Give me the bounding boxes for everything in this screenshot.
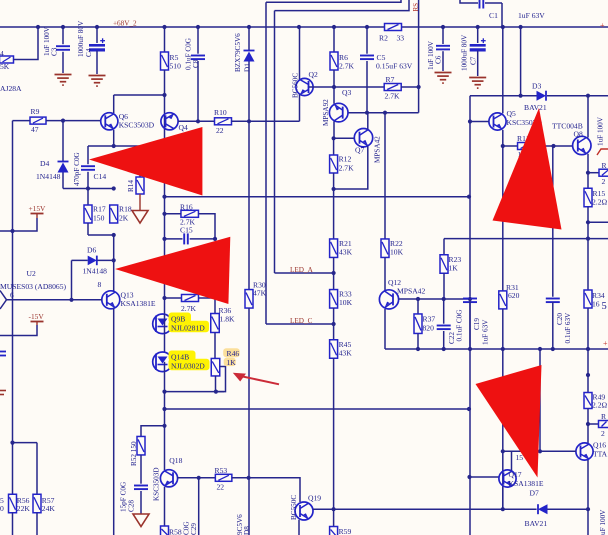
wire vertical bus x=274.5 — [274, 11, 276, 273]
svg-text:C5: C5 — [377, 53, 386, 62]
svg-text:C6: C6 — [435, 55, 443, 64]
wire Q17 collector up — [511, 451, 513, 470]
wire R21 bottom — [333, 258, 335, 291]
resistor R12 2.7K — [333, 138, 335, 155]
wire Q8 collector — [587, 96, 589, 138]
ground C7 — [469, 77, 486, 79]
wire Q3 base row y=112.7 — [348, 112, 419, 114]
resistor R13 (clipped) — [599, 169, 608, 176]
svg-text:5K: 5K — [0, 62, 10, 71]
wire x=470 lower vertical — [469, 297, 471, 535]
wire R9 left — [13, 120, 31, 122]
svg-text:15pF C0G: 15pF C0G — [120, 482, 128, 512]
svg-text:C28: C28 — [128, 500, 136, 512]
svg-text:Q16: Q16 — [593, 441, 606, 450]
svg-text:C4: C4 — [85, 48, 93, 57]
resistor R58 — [161, 526, 169, 535]
wire R45 bottom long — [333, 358, 335, 509]
wire x=249 bottom — [248, 478, 250, 535]
svg-text:U2: U2 — [27, 269, 36, 278]
resistor R17 150 — [87, 189, 89, 206]
wire D3 feed from rail — [520, 27, 522, 96]
capacitor C4 1000uF 80V electrolytic — [96, 27, 98, 43]
svg-text:R46: R46 — [227, 349, 240, 358]
wire Q18 emitter down — [164, 487, 166, 527]
svg-text:R14: R14 — [127, 180, 135, 192]
wire x=113.7 D6 to Q13 — [113, 235, 115, 291]
svg-text:R10: R10 — [214, 108, 227, 117]
ground C6 — [435, 72, 452, 74]
svg-text:C14: C14 — [94, 172, 107, 181]
red mark right edge — [597, 149, 608, 155]
wire LED_A row — [275, 272, 334, 274]
capacitor C14 470pF — [87, 146, 89, 164]
capacitor C3 1uF 100V — [62, 27, 64, 44]
junction bottom row R46 — [214, 390, 218, 394]
capacitor C22 0.1uF C0G — [443, 299, 445, 324]
wire R10 right — [232, 120, 300, 122]
junction base row mid — [538, 449, 542, 453]
resistor R36 1.8K — [211, 314, 220, 333]
junction opamp output — [69, 298, 73, 302]
wire Q6 collector row y=95 — [114, 94, 165, 96]
wire Q6 emitter down x=113.7 — [113, 130, 115, 146]
svg-text:D8: D8 — [243, 526, 251, 535]
junction R34 top — [586, 237, 590, 241]
transistor Q16 TTA — [576, 443, 593, 460]
svg-text:Q5: Q5 — [507, 109, 516, 118]
resistor R53 22 — [215, 474, 232, 481]
svg-text:22: 22 — [217, 483, 225, 492]
highlight NJL0281D — [169, 321, 210, 333]
wire R16 left — [165, 213, 182, 215]
junction rail349 C19 — [468, 347, 472, 351]
wire +15V to node — [0, 218, 37, 231]
junction R6/R7/Q3 node — [332, 85, 336, 89]
highlight NJL0302D — [169, 359, 210, 371]
transistor Q7 MPSA42 — [354, 129, 372, 147]
resistor R52 150 — [137, 436, 145, 455]
junction on +68V rail — [61, 25, 65, 29]
svg-text:510: 510 — [170, 62, 182, 71]
svg-text:C29: C29 — [190, 523, 198, 535]
resistor R37 820 — [417, 299, 419, 314]
svg-text:R9: R9 — [31, 107, 40, 116]
resistor R16 2.7K — [181, 210, 199, 217]
transistor Q2 BC560C — [299, 27, 301, 80]
junction on +68V rail — [332, 25, 336, 29]
junction rail349 C20 — [551, 347, 555, 351]
transistor Q14B NJL0302D (with diode) — [153, 352, 173, 372]
ground (open triangle) C28 — [133, 514, 149, 527]
junction x588 y375 — [586, 373, 590, 377]
svg-text:4: 4 — [0, 49, 4, 58]
junction rail409 left — [162, 407, 166, 411]
resistor R45 43K — [330, 340, 338, 359]
svg-text:2.7K: 2.7K — [385, 92, 400, 101]
wire x=502.8 mid vertical — [502, 349, 504, 509]
svg-text:24K: 24K — [42, 504, 56, 513]
wire R30 bottom — [248, 308, 250, 478]
junction mid rail right — [467, 195, 471, 199]
wire C14 top row y=146 — [88, 145, 140, 147]
capacitor C5 0.15uF 63V — [366, 27, 368, 54]
wire C1 right down to rail — [501, 3, 503, 27]
svg-text:C20: C20 — [556, 313, 564, 325]
junction LED_A node — [332, 271, 336, 275]
junction x114 y146 — [112, 144, 116, 148]
junction R15 out — [586, 220, 590, 224]
svg-text:MPSA92: MPSA92 — [322, 99, 330, 126]
resistor R57 24K — [33, 494, 41, 513]
junction R5/Q4 base node — [162, 93, 166, 97]
svg-text:2.7K: 2.7K — [181, 304, 196, 313]
wire R7 row y=87 — [334, 86, 384, 88]
junction C22 top — [442, 297, 446, 301]
transistor Q18 KSC3503D — [160, 470, 177, 487]
svg-text:1uF 100V: 1uF 100V — [427, 40, 435, 70]
svg-text:47: 47 — [31, 125, 39, 134]
svg-text:BC550C: BC550C — [290, 495, 298, 520]
junction on +68V rail — [441, 25, 445, 29]
wire R5 bottom — [164, 70, 166, 95]
junction rail349 R31 — [501, 347, 505, 351]
wire top net B horizontal — [275, 0, 410, 11]
wire +68V top rail — [0, 26, 385, 28]
svg-text:1uF 63V: 1uF 63V — [518, 11, 545, 20]
svg-text:Q3: Q3 — [342, 88, 351, 97]
wire x=164.5 down — [164, 197, 166, 314]
wire R59 top — [333, 509, 335, 526]
junction D3 wire — [519, 94, 523, 98]
junction R37 top — [416, 297, 420, 301]
resistor R2 33 — [385, 24, 402, 31]
resistor R23 1K — [440, 255, 448, 274]
svg-text:R2: R2 — [379, 34, 388, 43]
junction C5 node — [365, 111, 369, 115]
junction C20 column — [551, 144, 555, 148]
svg-text:1.8K: 1.8K — [220, 315, 235, 324]
svg-text:R7: R7 — [386, 75, 395, 84]
wire R9 right to Q6 base — [46, 120, 101, 122]
svg-text:22K: 22K — [17, 504, 31, 513]
wire D7 row y=509.2 — [313, 508, 537, 510]
junction on +68V rail — [501, 25, 505, 29]
wire R50 stub — [588, 423, 599, 425]
transistor Q19 BC550C — [295, 502, 313, 520]
svg-text:R12: R12 — [339, 155, 352, 164]
junction R13 node — [586, 171, 590, 175]
wire R33 bottom — [333, 308, 335, 341]
wire Q16 emitter — [587, 460, 589, 535]
ground (open triangle) R14 — [132, 211, 148, 224]
wire D3 row y=95.7 — [470, 95, 537, 97]
wire Q7 collector up to C5 node — [367, 113, 369, 130]
svg-text:D6: D6 — [87, 246, 96, 255]
junction R56/R57 split — [10, 441, 14, 445]
resistor R22 10K — [381, 239, 389, 258]
svg-text:NJL0302D: NJL0302D — [171, 361, 205, 370]
junction LED_C node — [332, 322, 336, 326]
wire Q5 emitter down — [502, 130, 504, 146]
wire Q12 emitter to rail349 — [384, 309, 386, 349]
resistor R10 22 — [215, 118, 232, 125]
wire Q13 emitter long — [113, 309, 115, 535]
wire x=37 down — [36, 443, 38, 495]
wire Q4 emitter row y=121.3 — [178, 120, 215, 122]
transistor Q5 KSC3503D — [489, 113, 506, 130]
svg-text:BAV21: BAV21 — [524, 103, 547, 112]
diode D7 BAV21 — [538, 504, 548, 514]
svg-text:0: 0 — [0, 504, 4, 513]
capacitor C6 1uF 100V — [442, 27, 444, 44]
svg-text:10K: 10K — [390, 248, 404, 257]
svg-text:1000uF 80V: 1000uF 80V — [461, 34, 469, 71]
svg-text:C7: C7 — [470, 56, 478, 65]
svg-text:R17: R17 — [93, 205, 106, 214]
svg-text:MPSA42: MPSA42 — [374, 136, 382, 163]
svg-text:0.1uF 63V: 0.1uF 63V — [564, 312, 572, 344]
wire R14 to ground — [139, 194, 141, 210]
highlight Q14B — [169, 351, 196, 362]
junction mid rail left — [162, 195, 166, 199]
annotation arrow to R46 — [238, 376, 279, 385]
opamp U2 output tip — [0, 291, 7, 310]
annotation red triangle 4 — [476, 365, 542, 478]
capacitor C28 15pF C0G — [134, 485, 148, 487]
capacitor clipped at left edge y=352 — [0, 351, 6, 353]
capacitor C1 1uF 63V — [460, 0, 478, 3]
transistor Q17 KSA1381E — [470, 476, 500, 478]
svg-text:1uF 100V: 1uF 100V — [597, 116, 605, 146]
svg-text:Q17: Q17 — [509, 470, 522, 479]
svg-text:D3: D3 — [532, 82, 541, 91]
junction rail349 C22 — [442, 347, 446, 351]
wire R46 bottom — [215, 376, 217, 392]
svg-text:0.1uF C0G: 0.1uF C0G — [456, 310, 464, 342]
svg-text:Q8: Q8 — [574, 130, 583, 139]
svg-text:D7: D7 — [530, 489, 539, 498]
junction R50 node — [586, 422, 590, 426]
wire R22 column — [384, 113, 386, 239]
svg-text:D4: D4 — [40, 159, 49, 168]
highlight Q9B — [169, 313, 192, 324]
svg-text:8: 8 — [98, 280, 102, 289]
svg-text:1N4148: 1N4148 — [36, 172, 61, 181]
wire rail y=238.6 — [444, 238, 608, 240]
svg-text:16: 16 — [592, 300, 600, 309]
svg-text:+68V_2: +68V_2 — [113, 20, 137, 28]
wire x=333.6 down to R21 — [333, 189, 335, 239]
junction base row left — [501, 449, 505, 453]
junction Q19 collector node — [332, 507, 336, 511]
transistor Q3 MPSA92 — [333, 87, 335, 104]
svg-text:2.2Ω: 2.2Ω — [592, 198, 607, 207]
resistor R15 2.2R — [584, 188, 592, 207]
wire Q19 collector — [313, 508, 334, 510]
svg-text:1N4148: 1N4148 — [83, 267, 108, 276]
highlight 1K — [224, 358, 236, 367]
junction on +68V rail — [95, 25, 99, 29]
junction rail349 Q16 feed — [538, 347, 542, 351]
junction on +68V rail — [365, 25, 369, 29]
resistor R31 620 — [502, 146, 504, 291]
svg-text:D1: D1 — [244, 63, 252, 72]
junction Q7 base node — [332, 136, 336, 140]
junction D7 right — [586, 507, 590, 511]
junction D6 cathode — [112, 258, 116, 262]
wire Q6 collector up — [113, 95, 115, 113]
wire R13 stub — [588, 172, 600, 174]
resistor R21 43K — [330, 239, 338, 258]
junction bottom row left — [162, 390, 166, 394]
svg-text:-15V: -15V — [29, 312, 45, 321]
svg-text:2.7K: 2.7K — [339, 164, 354, 173]
junction R12 bottom node — [332, 187, 336, 191]
svg-text:Q19: Q19 — [308, 494, 321, 503]
wire -15V to opamp — [0, 325, 37, 336]
junction Q5 base — [468, 119, 472, 123]
R46 tap line — [216, 367, 226, 392]
resistor R34 16 — [587, 239, 589, 290]
resistor R18 2K — [110, 205, 118, 223]
svg-text:+15V: +15V — [29, 204, 47, 213]
wire R23 drop — [443, 239, 445, 255]
junction on +68V rail — [36, 25, 40, 29]
wire R52 top — [141, 426, 165, 437]
svg-text:470pF C0G: 470pF C0G — [73, 152, 81, 186]
resistor R30 47K — [248, 289, 250, 291]
svg-text:2: 2 — [601, 429, 605, 438]
svg-text:5: 5 — [602, 301, 607, 312]
junction on +68V rail — [162, 25, 166, 29]
svg-text:6: 6 — [10, 291, 14, 300]
svg-text:10K: 10K — [339, 298, 353, 307]
svg-text:1K: 1K — [449, 264, 459, 273]
wire R52 to C28 — [140, 455, 142, 484]
resistor R6 2.7K — [333, 27, 335, 52]
annotation red triangle 2 — [115, 237, 230, 304]
svg-text:C15: C15 — [180, 226, 193, 235]
svg-text:+: + — [600, 21, 605, 30]
transistor Q8 TTC004B — [573, 136, 591, 154]
svg-text:MPSA42: MPSA42 — [397, 287, 425, 296]
svg-text:BAV21: BAV21 — [525, 519, 548, 528]
wire R56/R57 row — [13, 442, 38, 444]
wire Q19 emitter — [298, 520, 300, 535]
svg-text:43K: 43K — [339, 349, 353, 358]
svg-text:LED_A: LED_A — [290, 266, 314, 274]
junction Q8 collector node — [586, 94, 590, 98]
wire Q14B emitter bottom row — [165, 391, 225, 393]
svg-text:150: 150 — [93, 214, 105, 223]
svg-text:620: 620 — [508, 291, 520, 300]
svg-text:KSC3503D: KSC3503D — [153, 467, 161, 501]
resistor R14 — [139, 146, 141, 177]
wire mid rail y=196.7 — [165, 196, 470, 198]
capacitor C8 0.1uF C0G — [197, 27, 199, 54]
junction on +68V rail — [476, 25, 480, 29]
wire R7 right — [401, 86, 419, 88]
wire Q5 collector up — [502, 27, 504, 113]
wire R35 right corner down — [199, 298, 216, 314]
wire R53 right to Q19 — [232, 478, 300, 502]
svg-text:uF 100V: uF 100V — [599, 509, 607, 535]
svg-text:47K: 47K — [253, 289, 267, 298]
junction on +68V rail — [519, 25, 523, 29]
junction rail349 R34 — [586, 347, 590, 351]
transistor Q12 MPSA42 — [384, 290, 386, 292]
wire R11 right to Q8 — [532, 145, 573, 147]
svg-text:Q18: Q18 — [169, 456, 182, 465]
svg-text:C3: C3 — [51, 47, 59, 56]
wire R22 bottom to Q12 — [384, 258, 386, 291]
junction R22 node — [383, 111, 387, 115]
svg-text:KSA1381E: KSA1381E — [509, 479, 544, 488]
ground C4 — [89, 75, 106, 77]
svg-text:33: 33 — [397, 34, 405, 43]
svg-text:C19: C19 — [473, 318, 481, 330]
resistor R35 2.7K — [165, 297, 182, 299]
svg-text:BC560C: BC560C — [292, 73, 300, 98]
junction D1 bottom — [247, 119, 251, 123]
diode D6 1N4148 — [72, 259, 88, 261]
svg-text:R59: R59 — [339, 527, 352, 535]
wire C29 column — [198, 478, 200, 535]
wire Q16 base row y=451.3 — [503, 450, 576, 452]
svg-text:15: 15 — [516, 453, 524, 462]
junction C29 tap — [197, 476, 201, 480]
resistor R11 — [503, 145, 518, 147]
junction on +68V rail — [247, 25, 251, 29]
transistor Q9B NJL0281D (with diode) — [153, 314, 173, 334]
ground C3 — [55, 74, 72, 76]
svg-text:Q7: Q7 — [355, 146, 364, 155]
junction R52 tap — [162, 424, 166, 428]
wire R17/R18 bottom join — [88, 234, 114, 236]
resistor R33 10K — [330, 290, 338, 309]
resistor R49 2.2R — [584, 393, 592, 409]
wire R36 to R46 — [214, 333, 216, 359]
resistor R56 22K — [9, 494, 17, 513]
junction R18 bottom — [112, 233, 116, 237]
svg-text:AJ28A: AJ28A — [0, 84, 22, 93]
junction R35 left — [162, 296, 166, 300]
resistor R9 — [30, 117, 46, 124]
zener diode D1 BZX79C5V6 — [248, 27, 250, 50]
highlight R46 — [223, 348, 240, 357]
junction C15 right — [213, 237, 217, 241]
svg-text:2K: 2K — [119, 214, 129, 223]
svg-text:22: 22 — [216, 126, 224, 135]
wire between output transistors — [164, 334, 166, 353]
svg-text:1K: 1K — [227, 358, 237, 367]
wire RS vertical — [418, 0, 420, 113]
svg-text:C1: C1 — [489, 11, 498, 20]
svg-text:Q14B: Q14B — [171, 353, 189, 362]
junction C8 bottom — [196, 119, 200, 123]
resistor R4 (clipped at left edge) — [0, 56, 14, 63]
wire LED_C row — [266, 323, 334, 325]
junction rail409 right — [467, 407, 471, 411]
wire Q17 emitter down — [502, 488, 504, 510]
junction on +68V rail — [196, 25, 200, 29]
svg-text:NJL0281D: NJL0281D — [171, 323, 205, 332]
wire Q8 emitter — [587, 154, 589, 189]
svg-text:820: 820 — [423, 324, 435, 333]
wire R15 bottom — [587, 207, 589, 239]
wire x=588 down to R49 — [587, 349, 589, 393]
